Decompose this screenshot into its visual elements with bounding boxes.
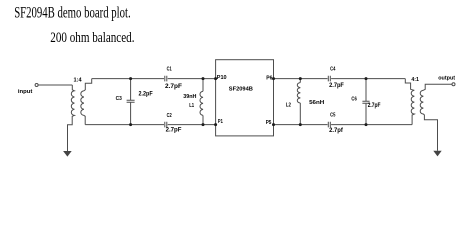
svg-text:2.7pF: 2.7pF: [166, 128, 182, 134]
svg-text:P10: P10: [217, 75, 227, 81]
svg-text:input: input: [18, 89, 33, 95]
svg-text:P6: P6: [266, 75, 272, 81]
svg-text:L2: L2: [286, 103, 291, 109]
svg-text:SF2094B demo board plot.: SF2094B demo board plot.: [14, 3, 131, 22]
svg-text:4:1: 4:1: [411, 77, 419, 83]
svg-text:1:4: 1:4: [74, 77, 83, 83]
svg-text:C5: C5: [330, 113, 335, 119]
svg-text:L1: L1: [189, 103, 194, 109]
svg-text:P1: P1: [218, 119, 223, 125]
svg-text:C3: C3: [116, 96, 122, 102]
svg-text:C4: C4: [330, 67, 336, 73]
svg-text:2.2pF: 2.2pF: [139, 91, 154, 97]
svg-text:2.7pf: 2.7pf: [329, 128, 344, 134]
svg-text:2.7pF: 2.7pF: [329, 83, 344, 89]
svg-text:2.7pF: 2.7pF: [165, 84, 182, 90]
svg-text:200 ohm balanced.: 200 ohm balanced.: [50, 30, 134, 46]
svg-text:39nH: 39nH: [183, 94, 196, 100]
svg-text:SF2094B: SF2094B: [229, 87, 253, 93]
svg-text:C6: C6: [351, 97, 356, 103]
svg-text:output: output: [438, 75, 455, 81]
svg-text:2.7pF: 2.7pF: [368, 103, 381, 109]
svg-text:C2: C2: [167, 113, 172, 119]
svg-text:56nH: 56nH: [309, 100, 324, 106]
svg-text:P5: P5: [266, 120, 272, 126]
svg-text:C1: C1: [167, 66, 172, 72]
